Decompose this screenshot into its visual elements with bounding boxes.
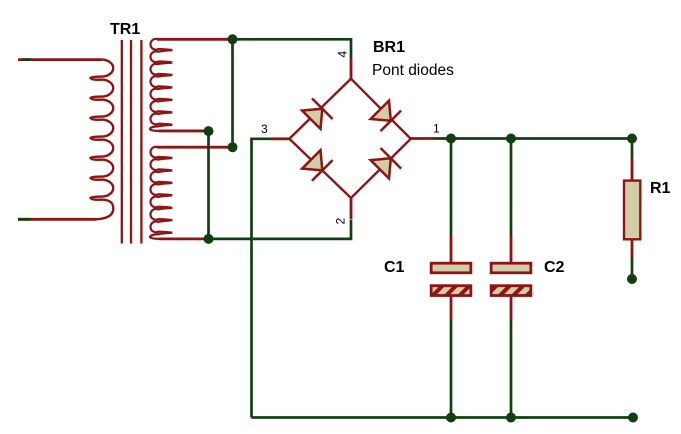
node: output rail at C1 <box>446 134 456 144</box>
wire: bottom AC wire to bridge pin 2 <box>209 220 352 239</box>
diode D-bottom-right (pin2 to pin1) <box>371 148 402 179</box>
node: bottom secondary top lead <box>228 142 238 152</box>
node: top rail / secondary tap <box>228 34 238 44</box>
bridge pin 2 lead <box>350 198 353 220</box>
svg-text:TR1: TR1 <box>110 21 140 38</box>
svg-text:BR1: BR1 <box>373 39 405 56</box>
wire: top rail to bridge pin 4 <box>233 39 352 58</box>
node: top secondary bottom lead <box>204 126 214 136</box>
node: R1 bottom end <box>627 274 637 284</box>
node: output rail at C2 <box>506 134 516 144</box>
node: bottom rail at C2 <box>506 413 516 423</box>
svg-text:C1: C1 <box>384 259 405 276</box>
wire: bottom rail <box>252 416 634 419</box>
svg-text:Pont diodes: Pont diodes <box>372 62 454 79</box>
bridge pin 3 lead <box>271 137 290 140</box>
bridge rectifier BR1 diamond <box>289 79 410 198</box>
node: bottom rail end <box>628 413 638 423</box>
wire: C1 branch verticals <box>450 139 453 238</box>
transformer TR1 secondary winding (bottom) <box>150 147 233 239</box>
svg-text:R1: R1 <box>650 180 671 197</box>
transformer TR1 secondary winding (top) <box>150 39 233 131</box>
svg-text:1: 1 <box>433 122 440 136</box>
wire: output rail from pin 1 <box>433 137 632 140</box>
capacitor C2 <box>491 236 531 320</box>
svg-text:3: 3 <box>261 122 268 136</box>
node: AC bottom junction <box>204 234 214 244</box>
transformer TR1 primary winding <box>18 60 113 220</box>
bridge pin 4 lead <box>350 58 353 79</box>
transformer TR1 core <box>122 40 142 244</box>
resistor R1 <box>624 157 640 258</box>
svg-text:2: 2 <box>334 218 348 225</box>
bridge pin 1 lead <box>411 137 433 140</box>
wire: C2 branch verticals <box>510 139 513 238</box>
node: output rail end at R1 <box>627 134 637 144</box>
diode D-top-left (pin3 to pin4) <box>302 98 333 128</box>
wire: vertical x=208.5 <box>207 131 210 239</box>
wire: vertical x=232.5 <box>231 39 234 147</box>
capacitor C1 <box>431 236 471 320</box>
svg-text:4: 4 <box>336 51 350 58</box>
wire: bridge pin 3 to bottom rail <box>252 139 271 418</box>
wire: R1 branch verticals <box>631 139 634 159</box>
diode D-top-right (pin4 to pin1) <box>371 101 402 132</box>
node: bottom rail at C1 <box>446 413 456 423</box>
svg-text:C2: C2 <box>544 259 565 276</box>
diode D-bottom-left (pin3 to pin2) <box>302 150 333 181</box>
